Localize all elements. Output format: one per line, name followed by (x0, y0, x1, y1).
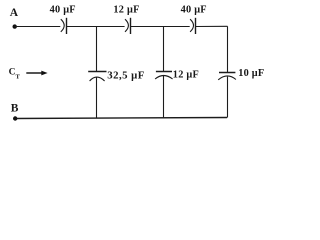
node B (13, 116, 17, 120)
wire C1 to node J1 and C2 (67, 26, 125, 28)
wire A to C1 (15, 26, 61, 28)
capacitor C5 12uF straight plate (156, 71, 172, 73)
wire branch J2 lower (163, 76, 165, 118)
wire branch J2 upper (163, 27, 165, 72)
svg-text:12 μF: 12 μF (113, 5, 139, 16)
capacitor C1 40uF curved plate (61, 19, 64, 32)
svg-text:40 μF: 40 μF (50, 5, 76, 16)
wire right branch lower (227, 77, 229, 118)
capacitor C3 40uF curved plate (190, 19, 193, 32)
svg-text:40 μF: 40 μF (181, 5, 207, 16)
wire bottom B to right corner (15, 118, 227, 119)
arrow Ct head (41, 71, 47, 76)
wire right branch upper (227, 26, 229, 72)
svg-text:B: B (11, 103, 19, 115)
svg-text:32,5 μF: 32,5 μF (107, 70, 144, 82)
capacitor C6 10uF curved plate (218, 76, 236, 80)
capacitor C4 32.5uF curved plate (90, 77, 105, 81)
wire C3 to top right corner (196, 25, 228, 27)
capacitor C1 40uF straight plate (66, 18, 68, 34)
capacitor C2 12uF straight plate (130, 18, 132, 34)
node A (13, 24, 17, 28)
svg-text:12 μF: 12 μF (173, 70, 199, 81)
capacitor C4 32.5uF straight plate (88, 71, 106, 73)
capacitor C3 40uF straight plate (195, 18, 197, 34)
arrow Ct (26, 72, 43, 74)
svg-text:10 μF: 10 μF (238, 68, 264, 79)
capacitor C6 10uF straight plate (219, 72, 235, 74)
capacitor C2 12uF curved plate (125, 19, 128, 32)
wire branch J1 lower (96, 77, 98, 118)
svg-text:A: A (10, 7, 19, 19)
capacitor C5 12uF curved plate (155, 76, 173, 80)
svg-text:CT: CT (9, 68, 21, 81)
wire branch J1 upper (96, 27, 98, 72)
wire C2 to node J2 and C3 (131, 26, 190, 28)
